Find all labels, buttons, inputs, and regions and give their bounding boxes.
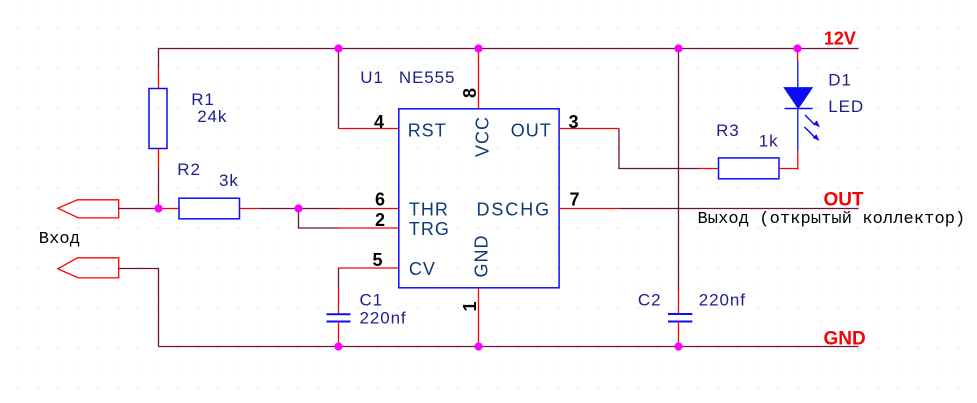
svg-text:24k: 24k [197, 107, 227, 126]
svg-text:NE555: NE555 [399, 68, 455, 87]
svg-text:4: 4 [374, 112, 384, 132]
resistor R1 [149, 89, 227, 149]
svg-text:5: 5 [372, 250, 382, 270]
node pin1 GND [474, 342, 482, 350]
port input 2 [58, 258, 119, 278]
svg-text:TRG: TRG [409, 219, 450, 239]
wire C1 to GND rail [338, 322, 340, 347]
node top rail pin4 [334, 44, 342, 52]
svg-text:GND: GND [472, 235, 492, 278]
svg-text:U1: U1 [360, 68, 384, 87]
wire top rail to pin4 RST [338, 49, 340, 129]
svg-text:12V: 12V [824, 29, 856, 49]
wire port1 to node [119, 208, 159, 210]
svg-text:R3: R3 [716, 121, 740, 140]
svg-text:LED: LED [828, 97, 864, 116]
wire C2 to GND rail [678, 322, 680, 347]
wire pin1 GND to rail [478, 288, 480, 347]
capacitor C2 [638, 291, 746, 322]
wire R1 bottom to node [158, 149, 160, 169]
wire R2 to node [259, 208, 299, 210]
svg-text:Выход (открытый коллектор): Выход (открытый коллектор) [698, 210, 966, 229]
IC U1 NE555 timer [360, 68, 559, 288]
svg-text:Вход: Вход [39, 230, 80, 249]
svg-text:DSCHG: DSCHG [477, 200, 552, 220]
resistor R3 [716, 121, 779, 179]
svg-text:THR: THR [409, 200, 449, 220]
svg-text:CV: CV [409, 259, 436, 279]
svg-text:7: 7 [570, 190, 580, 210]
svg-text:220nf: 220nf [699, 291, 746, 310]
wire pin7 DSCHG to OUT port [559, 208, 619, 210]
node C2 GND [674, 342, 682, 350]
wire pin5 CV to C1 [339, 267, 399, 269]
svg-text:R2: R2 [177, 160, 201, 179]
svg-text:OUT: OUT [824, 189, 865, 210]
node top rail VCC [474, 44, 482, 52]
wire node to pin2 TRG [299, 209, 339, 229]
wire 12V top rail [159, 48, 859, 50]
svg-text:RST: RST [408, 121, 447, 141]
resistor R2 [159, 160, 259, 219]
wire top rail to LED anode [797, 49, 799, 61]
svg-text:C2: C2 [638, 291, 662, 310]
svg-text:8: 8 [460, 88, 480, 98]
wire GND rail [159, 346, 859, 348]
svg-text:6: 6 [375, 190, 385, 210]
wire pin3 OUT to R3 [559, 128, 619, 130]
LED D1 [784, 61, 864, 151]
node junction R1/R2 [154, 204, 162, 212]
svg-text:VCC: VCC [473, 116, 493, 157]
wire top rail to R1 top [158, 49, 160, 69]
node top rail LED [793, 44, 801, 52]
wire pin8 VCC [478, 49, 480, 109]
svg-text:D1: D1 [828, 71, 852, 90]
svg-text:1k: 1k [759, 132, 779, 151]
svg-text:OUT: OUT [511, 121, 552, 141]
wire R3 to LED [779, 168, 798, 170]
capacitor C1 [327, 290, 407, 327]
wire LED cathode to R3 [797, 151, 800, 170]
node C1 GND [334, 342, 342, 350]
svg-text:3k: 3k [219, 171, 239, 190]
wire top rail to C2 [678, 49, 680, 291]
wire node to pin6 THR [299, 208, 339, 210]
node junction THR/TRG [294, 204, 302, 212]
port input 1 [58, 200, 119, 218]
svg-text:GND: GND [824, 328, 866, 349]
svg-text:C1: C1 [360, 290, 384, 309]
svg-text:2: 2 [375, 210, 385, 230]
node top rail C2 [674, 44, 682, 52]
svg-text:220nf: 220nf [360, 309, 407, 328]
wire port2 to GND rail [119, 269, 159, 347]
svg-text:1: 1 [460, 301, 480, 311]
